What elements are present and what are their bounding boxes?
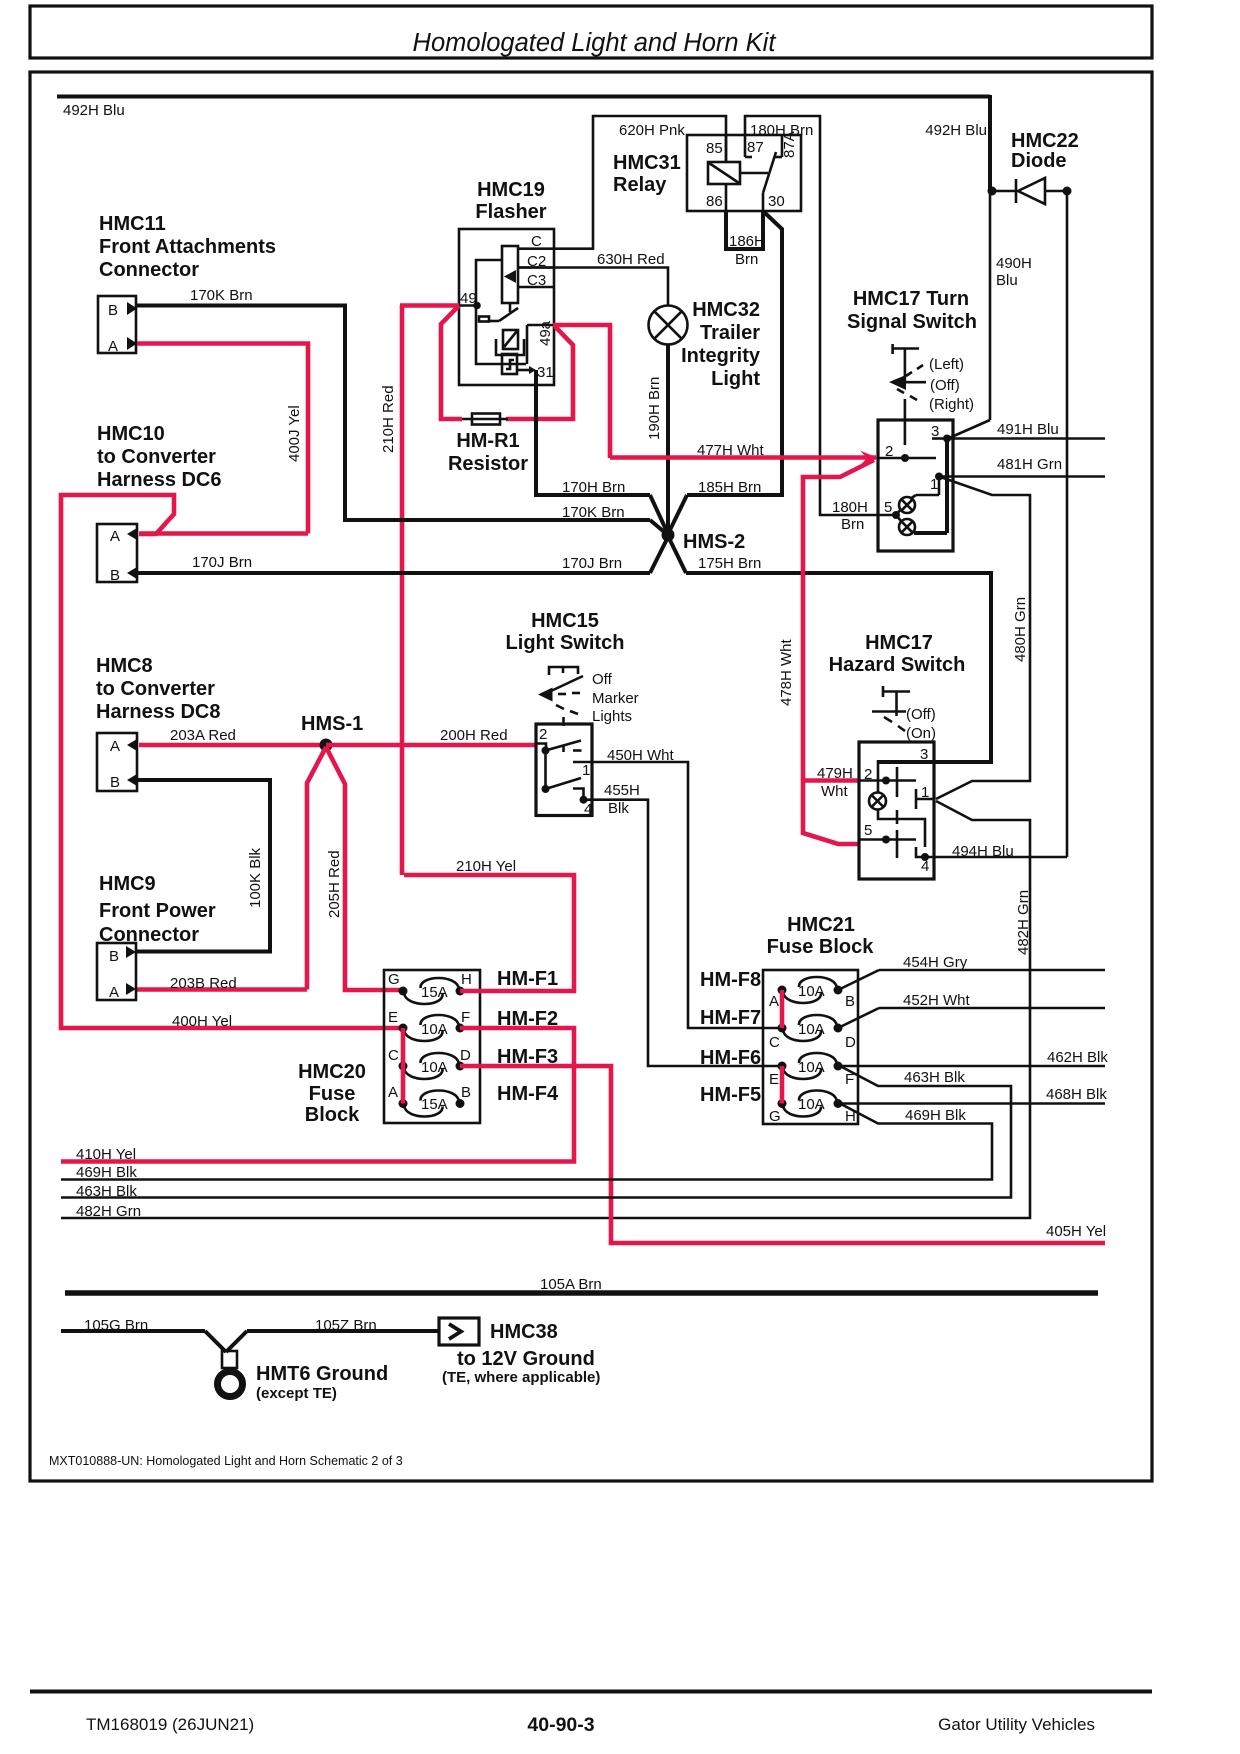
wire 400J Yel — [137, 344, 308, 534]
svg-text:170J Brn: 170J Brn — [562, 555, 622, 572]
svg-text:HMC20: HMC20 — [298, 1061, 366, 1083]
flasher pin C2 row — [518, 253, 555, 270]
svg-text:86: 86 — [706, 193, 723, 210]
svg-text:HM-F8: HM-F8 — [700, 969, 761, 991]
connector HMC8 labels — [96, 655, 221, 723]
svg-text:HM-F1: HM-F1 — [497, 968, 558, 990]
connector HMC10 labels — [97, 423, 222, 491]
wire 203B Red — [137, 975, 307, 992]
main schematic border box — [30, 72, 1152, 1481]
svg-text:to Converter: to Converter — [97, 446, 216, 468]
wire 170J Brn — [137, 535, 669, 573]
wire red resistor loop — [441, 306, 573, 420]
fuse HM-F3 — [388, 1046, 558, 1079]
svg-text:B: B — [109, 948, 119, 965]
svg-text:Blu: Blu — [996, 272, 1018, 289]
flasher pin 49 — [459, 290, 481, 309]
svg-text:210H Red: 210H Red — [380, 385, 397, 453]
wire 405H Yel — [460, 1066, 1106, 1243]
svg-text:Harness DC6: Harness DC6 — [97, 469, 222, 491]
svg-text:HMC15: HMC15 — [531, 610, 599, 632]
wire 494H Blu — [925, 843, 1067, 860]
TSS pin 1 — [930, 473, 943, 494]
svg-text:468H Blk: 468H Blk — [1046, 1086, 1107, 1103]
svg-text:200H Red: 200H Red — [440, 727, 508, 744]
svg-text:HMC17: HMC17 — [865, 632, 933, 654]
svg-text:40-90-3: 40-90-3 — [527, 1714, 594, 1736]
svg-text:10A: 10A — [798, 983, 825, 1000]
svg-text:C3: C3 — [527, 272, 546, 289]
svg-text:HMC9: HMC9 — [99, 873, 156, 895]
svg-text:491H Blu: 491H Blu — [997, 421, 1059, 438]
svg-text:A: A — [388, 1084, 398, 1101]
svg-text:Hazard Switch: Hazard Switch — [829, 654, 966, 676]
hazard pin 5 — [859, 822, 916, 858]
svg-text:HM-F5: HM-F5 — [700, 1084, 761, 1106]
svg-text:HMC11: HMC11 — [99, 213, 166, 235]
svg-text:452H Wht: 452H Wht — [903, 992, 971, 1009]
svg-text:49a: 49a — [537, 320, 554, 346]
hazard lamp — [869, 793, 886, 810]
svg-text:HMC32: HMC32 — [692, 299, 760, 321]
svg-text:(Off): (Off) — [906, 706, 936, 723]
wire 210H Yel — [404, 858, 574, 991]
svg-text:4: 4 — [921, 858, 929, 875]
relay armature — [763, 152, 776, 211]
svg-text:105A Brn: 105A Brn — [540, 1276, 602, 1293]
svg-text:85: 85 — [706, 140, 723, 157]
svg-text:490H: 490H — [996, 255, 1032, 272]
fuse HM-F7 — [700, 1007, 856, 1051]
flasher pin C3 row — [518, 272, 554, 289]
TSS pin 3 — [931, 423, 951, 443]
svg-text:620H Pnk: 620H Pnk — [619, 122, 685, 139]
svg-text:Integrity: Integrity — [681, 345, 761, 367]
flasher coil — [496, 330, 524, 355]
svg-text:Diode: Diode — [1011, 150, 1067, 172]
svg-text:Lights: Lights — [592, 708, 632, 725]
hazard pin 4 bracket — [916, 847, 929, 875]
svg-text:478H Wht: 478H Wht — [778, 638, 795, 706]
wire 203A Red — [139, 727, 326, 745]
svg-text:E: E — [388, 1009, 398, 1026]
svg-text:G: G — [388, 971, 400, 988]
svg-text:480H Grn: 480H Grn — [1012, 597, 1029, 662]
svg-text:105G Brn: 105G Brn — [84, 1317, 148, 1334]
relay pin 86 wire — [725, 184, 728, 212]
wire 478H Wht — [778, 460, 874, 781]
svg-text:205H Red: 205H Red — [326, 850, 343, 918]
svg-text:HMC21: HMC21 — [787, 914, 855, 936]
svg-text:Flasher: Flasher — [475, 201, 546, 223]
svg-text:469H Blk: 469H Blk — [905, 1107, 966, 1124]
svg-text:105Z Brn: 105Z Brn — [315, 1317, 377, 1334]
hazard pin 2 — [859, 766, 916, 797]
svg-text:F: F — [461, 1009, 470, 1026]
fuse HM-F6 — [700, 1047, 854, 1088]
svg-text:A: A — [769, 993, 779, 1010]
svg-text:to 12V Ground: to 12V Ground — [457, 1348, 595, 1370]
svg-text:405H Yel: 405H Yel — [1046, 1223, 1106, 1240]
svg-text:Marker: Marker — [592, 690, 639, 707]
wire 469H Blk — [61, 1104, 992, 1182]
svg-text:to Converter: to Converter — [96, 678, 215, 700]
connector HMC11 labels — [99, 213, 276, 281]
wire 105G Brn — [61, 1317, 226, 1352]
wire 105Z Brn — [226, 1317, 439, 1352]
wire 400H Yel left rail — [61, 495, 403, 1030]
node HMS-1 — [301, 713, 363, 752]
wire red HMC10-A to 400J — [139, 531, 308, 536]
svg-text:A: A — [108, 338, 118, 355]
svg-text:(On): (On) — [906, 725, 936, 742]
svg-text:HM-F4: HM-F4 — [497, 1083, 559, 1105]
wire 205H Red — [326, 747, 403, 990]
svg-text:MXT010888-UN: Homologated Ligh: MXT010888-UN: Homologated Light and Horn… — [49, 1454, 403, 1468]
svg-text:TM168019 (26JUN21): TM168019 (26JUN21) — [86, 1715, 254, 1734]
diode HMC22 — [988, 130, 1079, 204]
svg-text:Gator Utility Vehicles: Gator Utility Vehicles — [938, 1715, 1095, 1734]
TSS lamp circuit — [878, 440, 947, 535]
figure caption — [49, 1454, 403, 1468]
wire red 49a to 477H — [553, 325, 610, 458]
relay coil — [708, 162, 740, 184]
svg-text:479H: 479H — [817, 765, 853, 782]
wire 175H Brn — [668, 536, 991, 762]
flasher U2 HMC19 box — [459, 179, 554, 385]
connector HMC11 box — [98, 296, 137, 355]
svg-text:(Off): (Off) — [930, 377, 960, 394]
wire 477H Wht — [610, 442, 876, 459]
svg-text:HMC38: HMC38 — [490, 1321, 558, 1343]
wire 480H Grn — [936, 477, 1030, 800]
wire 492H Blu right vertical — [925, 95, 990, 192]
relay pin labels — [706, 131, 798, 210]
connector HMC10 box — [97, 524, 137, 584]
svg-text:C: C — [769, 1034, 780, 1051]
wire 490H Blu — [948, 192, 1032, 439]
svg-text:Light: Light — [711, 368, 760, 390]
fuse block HMC20 box — [384, 970, 480, 1123]
svg-text:462H Blk: 462H Blk — [1047, 1049, 1108, 1066]
svg-text:10A: 10A — [421, 1021, 448, 1038]
light switch lever — [538, 667, 639, 725]
svg-text:186H: 186H — [729, 233, 765, 250]
wire 185H Brn from relay pin 30 — [668, 212, 782, 534]
relay pin 87 contact — [745, 156, 752, 159]
svg-text:463H Blk: 463H Blk — [76, 1183, 137, 1200]
svg-text:HMC31: HMC31 — [613, 152, 681, 174]
svg-text:469H Blk: 469H Blk — [76, 1164, 137, 1181]
flasher Z element — [502, 354, 517, 374]
svg-text:170K Brn: 170K Brn — [190, 287, 253, 304]
connector HMC9 labels — [99, 873, 216, 946]
fuse HM-F5 — [700, 1084, 856, 1125]
svg-text:494H Blu: 494H Blu — [952, 843, 1014, 860]
wire 479H Wht — [803, 765, 859, 844]
svg-text:180H: 180H — [832, 499, 868, 516]
svg-text:D: D — [460, 1047, 471, 1064]
svg-text:203A Red: 203A Red — [170, 727, 236, 744]
wire red pin49 feed — [400, 303, 459, 308]
svg-text:Fuse Block: Fuse Block — [767, 936, 875, 958]
node HMS-2 — [662, 529, 746, 554]
fuse block HMC20 labels — [298, 1061, 366, 1126]
svg-text:170K Brn: 170K Brn — [562, 504, 625, 521]
svg-text:1: 1 — [582, 762, 590, 779]
wire 468H Blk — [840, 1086, 1107, 1104]
svg-text:170H Brn: 170H Brn — [562, 479, 625, 496]
flasher switch contact — [479, 303, 518, 322]
relay pin 87A contact — [775, 135, 782, 157]
svg-text:B: B — [108, 302, 118, 319]
svg-text:482H Grn: 482H Grn — [1015, 890, 1032, 955]
svg-text:HMS-2: HMS-2 — [683, 531, 745, 553]
fuse HM-F2 — [388, 1008, 558, 1041]
relay pin 85 wire — [725, 135, 728, 162]
svg-text:455H: 455H — [604, 782, 640, 799]
svg-text:10A: 10A — [798, 1096, 825, 1113]
svg-text:477H Wht: 477H Wht — [697, 442, 765, 459]
svg-text:(Right): (Right) — [929, 396, 974, 413]
wire 410H Yel — [61, 1028, 574, 1163]
flasher regulator rect — [502, 246, 518, 303]
light switch box — [536, 717, 592, 816]
svg-text:(except TE): (except TE) — [256, 1385, 337, 1402]
wire red HMS-1 left branch — [307, 747, 326, 990]
svg-text:5: 5 — [884, 499, 892, 516]
svg-text:492H Blu: 492H Blu — [925, 122, 987, 139]
svg-text:(TE, where applicable): (TE, where applicable) — [442, 1369, 600, 1386]
svg-text:454H Gry: 454H Gry — [903, 954, 968, 971]
svg-text:203B Red: 203B Red — [170, 975, 237, 992]
svg-text:Harness DC8: Harness DC8 — [96, 701, 221, 723]
wire 170H Brn flasher pin31 to HMS-2 — [536, 370, 668, 534]
hazard switch box — [859, 742, 934, 879]
svg-text:10A: 10A — [798, 1021, 825, 1038]
switch HMC15 labels — [506, 610, 625, 654]
flasher inner left rail — [476, 260, 526, 364]
hazard pin 1 bracket — [916, 784, 934, 809]
svg-text:100K Blk: 100K Blk — [247, 847, 264, 908]
svg-text:87: 87 — [747, 139, 764, 156]
svg-text:Signal Switch: Signal Switch — [847, 311, 977, 333]
svg-text:630H Red: 630H Red — [597, 251, 665, 268]
fuse block HMC21 box — [763, 970, 858, 1124]
svg-text:HM-F6: HM-F6 — [700, 1047, 761, 1069]
svg-text:G: G — [769, 1108, 781, 1125]
wire 100K Blk — [137, 780, 270, 952]
wire 481H Grn — [939, 456, 1105, 477]
fuse HM-F4 — [388, 1083, 559, 1117]
wire 190H Brn — [646, 345, 668, 535]
wire 180H Brn upper — [745, 116, 878, 515]
svg-text:E: E — [769, 1071, 779, 1088]
connector HMC9 box — [97, 943, 136, 1001]
svg-text:B: B — [461, 1084, 471, 1101]
wire 477H arrow at TSS pin2 — [860, 451, 878, 466]
svg-text:450H Wht: 450H Wht — [607, 747, 675, 764]
relay coil to armature link — [740, 172, 768, 175]
svg-text:Relay: Relay — [613, 174, 667, 196]
fuse HM-F8 — [700, 969, 855, 1010]
lamp HMC32 trailer integrity light — [649, 299, 761, 390]
fuse HM-F1 — [388, 968, 558, 1004]
wire red HMC20 internal E-C-A — [401, 1028, 406, 1104]
svg-text:87A: 87A — [781, 131, 798, 158]
svg-text:15A: 15A — [421, 1096, 448, 1113]
svg-text:HMT6 Ground: HMT6 Ground — [256, 1363, 388, 1385]
svg-text:C: C — [531, 233, 542, 250]
relay U1 HMC31 box — [613, 135, 801, 211]
svg-text:HMS-1: HMS-1 — [301, 713, 363, 735]
svg-text:482H Grn: 482H Grn — [76, 1203, 141, 1220]
svg-text:Brn: Brn — [735, 251, 758, 268]
wire 450H Wht — [573, 747, 782, 1028]
wire red HMC21 internal A-C — [780, 990, 785, 1028]
light switch pin 2 contact — [536, 741, 582, 755]
flasher pin 31 — [517, 364, 554, 381]
fuse block HMC21 labels — [767, 914, 875, 958]
wire 492H Blu top rail — [57, 97, 990, 120]
svg-text:Block: Block — [305, 1104, 360, 1126]
connector HMC38 to 12V ground — [439, 1318, 600, 1386]
svg-text:D: D — [845, 1034, 856, 1051]
flasher pin 49a row — [527, 320, 554, 364]
svg-text:Front Power: Front Power — [99, 900, 216, 922]
wire 210H Red rail — [380, 306, 402, 876]
svg-text:30: 30 — [768, 193, 785, 210]
TSS pin 2 contact — [878, 443, 936, 462]
resistor HM-R1 — [448, 414, 528, 476]
light switch pin 4 bracket — [573, 789, 592, 819]
svg-text:410H Yel: 410H Yel — [76, 1146, 136, 1163]
svg-text:185H Brn: 185H Brn — [698, 479, 761, 496]
page title frame — [30, 6, 1152, 58]
svg-text:463H Blk: 463H Blk — [904, 1069, 965, 1086]
svg-text:HMC19: HMC19 — [477, 179, 545, 201]
wire 455H Blk — [584, 782, 783, 1066]
light switch pin 1 contact — [542, 751, 591, 794]
svg-text:A: A — [110, 528, 120, 545]
footer text — [86, 1714, 1095, 1736]
svg-text:(Left): (Left) — [929, 356, 964, 373]
svg-text:A: A — [110, 738, 120, 755]
svg-text:Resistor: Resistor — [448, 453, 528, 475]
svg-text:B: B — [110, 567, 120, 584]
svg-text:170J Brn: 170J Brn — [192, 554, 252, 571]
svg-text:C: C — [388, 1047, 399, 1064]
svg-text:HMC8: HMC8 — [96, 655, 153, 677]
svg-text:Wht: Wht — [821, 783, 849, 800]
svg-text:175H Brn: 175H Brn — [698, 555, 761, 572]
svg-text:400J Yel: 400J Yel — [286, 405, 303, 462]
svg-text:10A: 10A — [421, 1059, 448, 1076]
footer rule — [30, 1690, 1152, 1694]
svg-text:2: 2 — [539, 726, 547, 743]
svg-text:Front Attachments: Front Attachments — [99, 236, 276, 258]
hazard pin 3 path — [878, 746, 934, 847]
svg-text:Connector: Connector — [99, 259, 199, 281]
wire from diode to 494H Blu — [1066, 191, 1069, 857]
wire 454H Gry — [838, 954, 1105, 990]
switch HMC17 hazard labels — [829, 632, 966, 676]
svg-text:Brn: Brn — [841, 516, 864, 533]
wire 463H Blk — [61, 1066, 1011, 1200]
svg-text:Homologated Light and Horn Kit: Homologated Light and Horn Kit — [413, 29, 777, 57]
svg-text:Blk: Blk — [608, 800, 629, 817]
svg-text:Trailer: Trailer — [700, 322, 760, 344]
svg-text:481H Grn: 481H Grn — [997, 456, 1062, 473]
svg-text:210H Yel: 210H Yel — [456, 858, 516, 875]
svg-text:HM-R1: HM-R1 — [456, 430, 519, 452]
turn signal switch box — [878, 399, 953, 551]
svg-text:5: 5 — [864, 822, 872, 839]
svg-text:400H Yel: 400H Yel — [172, 1013, 232, 1030]
svg-text:H: H — [461, 971, 472, 988]
wire 105A Brn — [65, 1276, 1098, 1293]
turn signal lever — [889, 344, 974, 413]
ground HMT6 ring terminal — [218, 1351, 389, 1402]
svg-text:HM-F7: HM-F7 — [700, 1007, 761, 1029]
svg-text:HMC10: HMC10 — [97, 423, 165, 445]
wire 630H Red — [518, 251, 668, 306]
wire 186H Brn — [726, 211, 765, 268]
wire 620H Pnk — [555, 116, 726, 249]
switch HMC17 turn signal labels — [847, 288, 977, 333]
svg-text:49: 49 — [460, 290, 477, 307]
svg-text:10A: 10A — [798, 1059, 825, 1076]
wire 180H Brn lower label — [832, 499, 868, 533]
svg-text:B: B — [110, 774, 120, 791]
svg-text:4: 4 — [584, 801, 592, 818]
connector HMC8 box — [97, 733, 137, 791]
svg-text:190H Brn: 190H Brn — [646, 377, 663, 440]
svg-text:B: B — [845, 993, 855, 1010]
svg-text:HMC22: HMC22 — [1011, 130, 1079, 152]
flasher pin C row — [518, 233, 555, 250]
wire 452H Wht — [838, 992, 1105, 1028]
svg-text:A: A — [109, 984, 119, 1001]
hazard switch lever — [872, 686, 936, 742]
wire 482H Grn — [61, 801, 1032, 1220]
wire 200H Red — [326, 727, 536, 745]
svg-text:31: 31 — [537, 364, 554, 381]
wire 491H Blu — [947, 421, 1105, 439]
svg-text:Off: Off — [592, 671, 613, 688]
svg-text:15A: 15A — [421, 984, 448, 1001]
wire 170K Brn — [137, 287, 669, 536]
svg-text:492H Blu: 492H Blu — [63, 102, 125, 119]
wire 462H Blk — [840, 1049, 1108, 1066]
svg-text:Fuse: Fuse — [309, 1083, 356, 1105]
svg-text:HMC17 Turn: HMC17 Turn — [853, 288, 969, 310]
svg-text:Light Switch: Light Switch — [506, 632, 625, 654]
wire red HMC21 internal E-G — [780, 1066, 785, 1104]
